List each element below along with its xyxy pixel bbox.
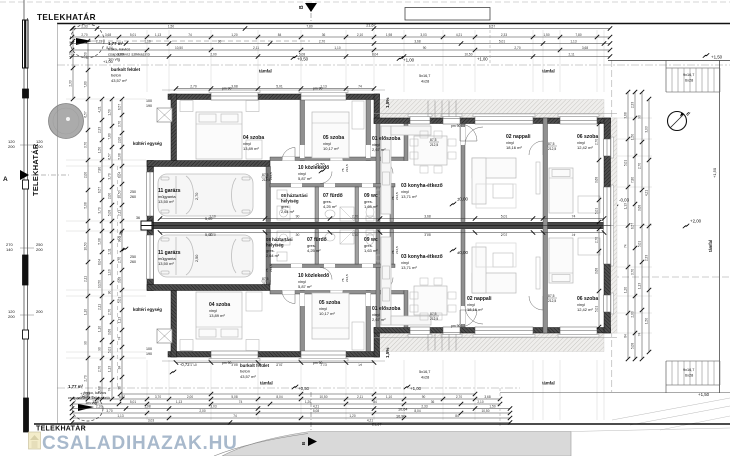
svg-text:2,00: 2,00 bbox=[187, 395, 193, 399]
svg-text:4x28: 4x28 bbox=[421, 80, 429, 84]
dimension chain bottom 6 bbox=[70, 418, 512, 424]
svg-text:2,33: 2,33 bbox=[631, 102, 635, 108]
svg-text:1,13: 1,13 bbox=[108, 366, 112, 372]
svg-text:5,08: 5,08 bbox=[631, 343, 635, 349]
svg-text:-0,03: -0,03 bbox=[619, 198, 630, 203]
window sills right wall bbox=[611, 137, 614, 158]
svg-text:3,68: 3,68 bbox=[231, 84, 238, 88]
interior wall bedrooms corridor bbox=[270, 157, 404, 161]
svg-text:84: 84 bbox=[624, 334, 628, 338]
svg-text:43,57 m²: 43,57 m² bbox=[111, 78, 127, 83]
svg-text:1,10: 1,10 bbox=[386, 395, 392, 399]
interior wall kitchen left bbox=[376, 124, 380, 222]
stairs bottom right bbox=[666, 361, 720, 393]
svg-text:7,80: 7,80 bbox=[84, 81, 88, 87]
left vertical chain 1 bbox=[69, 26, 76, 101]
svg-text:250: 250 bbox=[130, 190, 136, 194]
svg-text:1,50: 1,50 bbox=[84, 52, 88, 58]
svg-text:2,00: 2,00 bbox=[84, 172, 88, 178]
svg-text:6,57: 6,57 bbox=[108, 153, 112, 159]
level marker bbox=[703, 53, 709, 57]
svg-text:200: 200 bbox=[36, 309, 43, 314]
svg-text:3,70: 3,70 bbox=[108, 173, 112, 179]
svg-text:90: 90 bbox=[218, 39, 222, 43]
svg-text:6x28: 6x28 bbox=[685, 374, 693, 378]
svg-text:87,5: 87,5 bbox=[262, 173, 269, 177]
svg-text:87,5: 87,5 bbox=[548, 294, 555, 298]
svg-text:5,01: 5,01 bbox=[595, 208, 599, 214]
wardrobe 06 bbox=[578, 196, 600, 213]
dimension chain bottom 0 bbox=[118, 392, 477, 396]
svg-text:74: 74 bbox=[239, 400, 243, 404]
svg-text:1,13: 1,13 bbox=[570, 39, 576, 43]
svg-text:1,50: 1,50 bbox=[98, 147, 102, 153]
car top garage bbox=[158, 174, 253, 216]
retaining wall line top right bbox=[608, 60, 730, 62]
svg-text:250: 250 bbox=[130, 255, 136, 259]
left vertical chain 2 bbox=[84, 39, 91, 401]
dash-dot level line top bbox=[57, 64, 730, 66]
svg-text:2,33: 2,33 bbox=[69, 80, 73, 86]
kitchen stove bbox=[383, 172, 390, 185]
window 06 szoba top bbox=[560, 117, 597, 125]
svg-text:3,70: 3,70 bbox=[117, 52, 123, 56]
door gap 04|05 wall bbox=[300, 145, 305, 158]
exterior wall top right wing bbox=[374, 118, 611, 124]
svg-text:84: 84 bbox=[118, 366, 122, 370]
svg-text:1,20: 1,20 bbox=[231, 33, 237, 37]
svg-text:2,70: 2,70 bbox=[190, 84, 197, 88]
svg-text:190: 190 bbox=[146, 104, 152, 108]
svg-text:3,68: 3,68 bbox=[638, 205, 642, 211]
svg-text:10,64: 10,64 bbox=[398, 408, 408, 412]
section marker B top triangle bbox=[305, 3, 317, 12]
svg-text:3,70: 3,70 bbox=[84, 142, 88, 148]
svg-text:5,01: 5,01 bbox=[501, 214, 508, 218]
svg-text:212,5: 212,5 bbox=[548, 147, 556, 151]
svg-text:1,5%: 1,5% bbox=[385, 98, 390, 108]
level marker bbox=[397, 56, 403, 60]
level marker bbox=[404, 385, 410, 389]
sink 08 bbox=[277, 190, 287, 199]
svg-text:2,64 m²: 2,64 m² bbox=[281, 209, 295, 214]
svg-text:+1,50: +1,50 bbox=[712, 167, 717, 178]
svg-text:3,68: 3,68 bbox=[624, 112, 628, 118]
svg-text:3,68: 3,68 bbox=[118, 277, 122, 283]
dimension chain bottom 1 bbox=[70, 395, 502, 401]
level marker bbox=[683, 224, 689, 228]
svg-text:3,68: 3,68 bbox=[595, 268, 599, 274]
svg-text:4,25 m²: 4,25 m² bbox=[307, 248, 321, 253]
window 05 szoba top bbox=[301, 92, 346, 100]
svg-text:87,5: 87,5 bbox=[262, 277, 269, 281]
svg-text:2,67 m²: 2,67 m² bbox=[372, 147, 386, 152]
svg-text:10,50: 10,50 bbox=[98, 280, 102, 288]
svg-text:74: 74 bbox=[572, 214, 576, 218]
svg-text:+1,00: +1,00 bbox=[410, 386, 422, 391]
svg-text:13,50 m²: 13,50 m² bbox=[158, 199, 174, 204]
svg-text:4,25 m²: 4,25 m² bbox=[323, 204, 337, 209]
bed 04 szoba bbox=[196, 112, 242, 159]
svg-text:5,87 m²: 5,87 m² bbox=[298, 284, 312, 289]
svg-text:2,11: 2,11 bbox=[569, 52, 575, 56]
svg-text:4,21: 4,21 bbox=[456, 33, 462, 37]
svg-text:90: 90 bbox=[638, 115, 642, 119]
entrance door top bbox=[443, 117, 460, 125]
svg-text:12,42 m²: 12,42 m² bbox=[577, 307, 593, 312]
window 04 szoba top bbox=[211, 92, 258, 100]
svg-text:1,50: 1,50 bbox=[108, 109, 112, 115]
svg-text:2,10: 2,10 bbox=[96, 404, 102, 408]
svg-text:1,13: 1,13 bbox=[155, 33, 161, 37]
svg-text:2,70: 2,70 bbox=[108, 309, 112, 315]
building unit geometry mirrored bottom bbox=[141, 226, 617, 367]
site boundary dashed line top edge bbox=[0, 1, 730, 3]
right vertical chain 4 bbox=[645, 97, 652, 354]
svg-text:260: 260 bbox=[130, 260, 136, 264]
svg-text:6x28: 6x28 bbox=[685, 79, 693, 83]
door gap corridor 04 bbox=[282, 157, 295, 161]
svg-text:212,5: 212,5 bbox=[548, 299, 556, 303]
kulteri egyseg box bbox=[157, 108, 172, 122]
kitchen counter bbox=[381, 126, 391, 214]
svg-text:5,01: 5,01 bbox=[118, 297, 122, 303]
svg-text:2,33: 2,33 bbox=[501, 33, 507, 37]
interior wall bath block top bbox=[270, 184, 395, 188]
svg-text:1,63 m²: 1,63 m² bbox=[364, 248, 378, 253]
chain terminator dashes bbox=[489, 25, 491, 64]
svg-text:burkolt felület: burkolt felület bbox=[240, 363, 270, 368]
svg-text:pm 90: pm 90 bbox=[451, 324, 461, 328]
svg-text:TELEKHATÁR: TELEKHATÁR bbox=[31, 143, 40, 196]
svg-text:+0,50: +0,50 bbox=[297, 57, 309, 62]
svg-text:43,57 m²: 43,57 m² bbox=[240, 374, 256, 379]
svg-text:100: 100 bbox=[146, 347, 152, 351]
svg-text:74: 74 bbox=[358, 84, 362, 88]
svg-text:200: 200 bbox=[36, 247, 43, 252]
svg-text:5,01: 5,01 bbox=[638, 241, 642, 247]
svg-text:13,89 m²: 13,89 m² bbox=[209, 313, 225, 318]
svg-text:9x16,7: 9x16,7 bbox=[683, 73, 694, 77]
svg-text:pm 90: pm 90 bbox=[451, 124, 461, 128]
svg-text:támfal: támfal bbox=[542, 69, 555, 74]
svg-text:3,68: 3,68 bbox=[424, 214, 431, 218]
svg-text:1,20: 1,20 bbox=[624, 287, 628, 293]
boundary post bottom bar bbox=[24, 398, 29, 432]
svg-text:10,50: 10,50 bbox=[118, 190, 122, 198]
svg-text:74: 74 bbox=[118, 337, 122, 341]
svg-text:CSALADIHAZAK.HU: CSALADIHAZAK.HU bbox=[42, 433, 238, 454]
washing machine 08 bbox=[277, 206, 290, 220]
svg-text:1,50: 1,50 bbox=[645, 318, 649, 324]
interior wall 05|01 bbox=[366, 100, 371, 161]
dining table bbox=[414, 136, 447, 165]
svg-text:1,20: 1,20 bbox=[305, 400, 311, 404]
interior wall kitchen|nappali bbox=[461, 124, 465, 222]
dimension chain top 4 bbox=[70, 46, 612, 52]
svg-text:kültéri egység: kültéri egység bbox=[133, 141, 162, 146]
road curve line bbox=[214, 434, 308, 456]
svg-text:3,68: 3,68 bbox=[108, 329, 112, 335]
svg-text:212,5: 212,5 bbox=[395, 192, 399, 200]
svg-text:212,5: 212,5 bbox=[345, 164, 349, 172]
svg-text:36: 36 bbox=[118, 386, 122, 390]
shower 07 bbox=[340, 207, 354, 221]
road gray band bottom right bbox=[222, 432, 571, 456]
svg-text:21,67: 21,67 bbox=[366, 24, 376, 28]
svg-text:5,01: 5,01 bbox=[499, 39, 505, 43]
level marker bbox=[122, 247, 128, 251]
svg-text:A: A bbox=[3, 176, 8, 183]
svg-text:pm 90: pm 90 bbox=[313, 87, 323, 91]
svg-text:helyiség: helyiség bbox=[281, 199, 299, 204]
svg-text:3,03: 3,03 bbox=[420, 33, 426, 37]
party wall pillar left bbox=[141, 221, 152, 226]
svg-text:3,70: 3,70 bbox=[631, 269, 635, 275]
svg-text:+0,50: +0,50 bbox=[298, 386, 310, 391]
washbasin 07 bbox=[325, 210, 335, 218]
svg-text:burkolt felület: burkolt felület bbox=[111, 67, 141, 72]
svg-text:2,50: 2,50 bbox=[195, 255, 199, 262]
svg-text:2,11: 2,11 bbox=[98, 304, 102, 310]
toilet 09 bbox=[366, 207, 374, 218]
svg-text:5,08: 5,08 bbox=[84, 202, 88, 208]
svg-text:12,42 m²: 12,42 m² bbox=[577, 145, 593, 150]
svg-text:5,08: 5,08 bbox=[118, 153, 122, 159]
svg-text:+1,00: +1,00 bbox=[80, 391, 91, 396]
svg-text:212,5: 212,5 bbox=[430, 143, 438, 147]
svg-text:10,50: 10,50 bbox=[175, 46, 183, 50]
svg-text:2,10: 2,10 bbox=[477, 400, 483, 404]
svg-text:2,67 m²: 2,67 m² bbox=[372, 317, 386, 322]
svg-text:1,10: 1,10 bbox=[84, 309, 88, 315]
svg-text:4,21: 4,21 bbox=[313, 404, 319, 408]
svg-text:212,5: 212,5 bbox=[269, 264, 273, 272]
svg-text:3,68: 3,68 bbox=[595, 177, 599, 183]
section line B bottom segment bbox=[310, 392, 312, 436]
legend box top bbox=[405, 8, 490, 21]
svg-text:3,68: 3,68 bbox=[98, 386, 102, 392]
dimension chain top 5 bbox=[70, 52, 612, 58]
dash-dot level line bottom bbox=[57, 387, 520, 389]
svg-text:1,98: 1,98 bbox=[386, 33, 392, 37]
svg-text:támfal: támfal bbox=[259, 69, 272, 74]
svg-text:+1,00: +1,00 bbox=[477, 57, 488, 62]
exterior wall top-left wing bbox=[168, 94, 380, 100]
svg-text:5,01: 5,01 bbox=[130, 400, 136, 404]
svg-text:1,98: 1,98 bbox=[144, 404, 150, 408]
coffee table nappali bbox=[493, 184, 513, 198]
section line B top segment bbox=[310, 13, 312, 23]
boundary post square 2 bbox=[23, 180, 29, 189]
interior wall 09|kitchen bbox=[390, 187, 394, 222]
svg-text:10,17 m²: 10,17 m² bbox=[323, 146, 339, 151]
wall garage top / bedroom separator bbox=[147, 161, 270, 167]
svg-text:7,80: 7,80 bbox=[575, 33, 581, 37]
svg-text:2,70: 2,70 bbox=[638, 163, 642, 169]
svg-text:8,04: 8,04 bbox=[372, 52, 378, 56]
level marker bbox=[450, 248, 456, 252]
stairs top right bbox=[666, 61, 720, 93]
soakaway dashed circle top with arrow bbox=[70, 24, 104, 58]
window sills right wing bbox=[408, 114, 432, 117]
svg-text:1,13: 1,13 bbox=[176, 400, 182, 404]
dashed vertical line x57 bbox=[57, 24, 59, 425]
level marker bbox=[292, 385, 298, 389]
dashed vertical right of building bbox=[611, 60, 613, 392]
svg-text:támfal: támfal bbox=[542, 381, 555, 386]
door arc 04 szoba bbox=[282, 148, 295, 161]
door gap bath 08 bbox=[291, 184, 302, 188]
svg-text:2,33: 2,33 bbox=[645, 255, 649, 261]
svg-text:2,33: 2,33 bbox=[421, 404, 427, 408]
svg-text:90: 90 bbox=[98, 347, 102, 351]
right boundary vertical line bbox=[719, 61, 721, 394]
svg-text:helyiség: helyiség bbox=[266, 243, 284, 248]
svg-text:13,89 m²: 13,89 m² bbox=[243, 146, 259, 151]
svg-text:200: 200 bbox=[8, 314, 15, 319]
svg-text:5,01: 5,01 bbox=[130, 33, 136, 37]
level marker bbox=[612, 205, 618, 209]
svg-text:támfal: támfal bbox=[260, 381, 273, 386]
svg-text:8,04: 8,04 bbox=[276, 395, 282, 399]
svg-text:212,5: 212,5 bbox=[430, 317, 438, 321]
kitchen sink bbox=[383, 150, 390, 163]
svg-text:5x16,7: 5x16,7 bbox=[419, 370, 430, 374]
svg-text:5,08: 5,08 bbox=[108, 210, 112, 216]
svg-text:5x16,7: 5x16,7 bbox=[419, 74, 430, 78]
dimension chain top 3 bbox=[70, 39, 612, 45]
north compass bbox=[668, 112, 687, 131]
svg-text:4,21: 4,21 bbox=[645, 190, 649, 196]
svg-text:90: 90 bbox=[423, 46, 427, 50]
svg-text:7,80: 7,80 bbox=[98, 167, 102, 173]
svg-text:2,70: 2,70 bbox=[595, 237, 599, 243]
svg-text:212,5: 212,5 bbox=[395, 246, 399, 254]
svg-text:1,10: 1,10 bbox=[108, 269, 112, 275]
svg-text:8,04: 8,04 bbox=[414, 409, 420, 413]
level marker bbox=[319, 169, 325, 173]
svg-text:3,68: 3,68 bbox=[484, 395, 490, 399]
svg-text:pm 90: pm 90 bbox=[313, 361, 323, 365]
svg-text:±0,00: ±0,00 bbox=[457, 197, 469, 202]
svg-text:6,57: 6,57 bbox=[84, 111, 88, 117]
washbasin 09 bbox=[376, 190, 384, 196]
svg-text:87,5: 87,5 bbox=[430, 312, 437, 316]
svg-text:3,70: 3,70 bbox=[106, 409, 112, 413]
dimension chain top 1 bbox=[70, 24, 612, 30]
svg-text:2,70: 2,70 bbox=[514, 46, 520, 50]
svg-text:90: 90 bbox=[422, 395, 426, 399]
boundary post rectangle top bbox=[23, 20, 29, 68]
svg-text:3,68: 3,68 bbox=[414, 39, 420, 43]
svg-text:1,65 m²: 1,65 m² bbox=[364, 204, 378, 209]
right vertical chain 1 bbox=[624, 90, 631, 361]
svg-text:36: 36 bbox=[136, 216, 140, 220]
svg-text:8,04: 8,04 bbox=[98, 259, 102, 265]
boundary post square 1 bbox=[23, 89, 29, 98]
svg-text:1,50: 1,50 bbox=[631, 134, 635, 140]
right vertical chain 2 bbox=[631, 90, 638, 361]
svg-text:1,20: 1,20 bbox=[349, 414, 355, 418]
svg-text:13,71 m²: 13,71 m² bbox=[401, 194, 417, 199]
entrance steps top bbox=[428, 101, 456, 118]
svg-text:3,03: 3,03 bbox=[645, 126, 649, 132]
dimension chain bottom 2 bbox=[70, 400, 502, 406]
svg-text:pm 90: pm 90 bbox=[222, 87, 232, 91]
svg-text:2,70: 2,70 bbox=[98, 366, 102, 372]
svg-text:3,68: 3,68 bbox=[92, 400, 98, 404]
left property boundary double line bbox=[23, 0, 25, 420]
svg-text:B: B bbox=[299, 5, 305, 9]
svg-text:6,57: 6,57 bbox=[631, 223, 635, 229]
boundary post square 3 bbox=[23, 330, 29, 339]
wardrobe 04 right bbox=[246, 140, 262, 159]
svg-text:2,70: 2,70 bbox=[352, 214, 359, 218]
interior wall 04|05 bbox=[300, 100, 305, 161]
level marker bbox=[291, 55, 297, 59]
svg-text:2,70: 2,70 bbox=[195, 193, 199, 200]
eaves line top-left bbox=[162, 89, 385, 91]
left vertical chain 3 bbox=[98, 97, 105, 401]
svg-text:pm 90: pm 90 bbox=[222, 361, 232, 365]
dimension chain bottom 4 bbox=[70, 409, 512, 415]
svg-text:2,00: 2,00 bbox=[108, 193, 112, 199]
svg-text:100: 100 bbox=[146, 99, 152, 103]
svg-text:10,50: 10,50 bbox=[465, 52, 473, 56]
svg-text:+1,00: +1,00 bbox=[103, 59, 114, 64]
svg-text:08 háztartási: 08 háztartási bbox=[266, 237, 293, 242]
interior wall 08|07 bbox=[315, 187, 319, 222]
interior dim chain bedrooms top bbox=[174, 84, 376, 90]
left vertical chain 5 bbox=[118, 97, 125, 401]
svg-text:2,11: 2,11 bbox=[96, 39, 102, 43]
extension hairlines vertical top bbox=[146, 30, 148, 92]
bed 05 szoba bbox=[312, 112, 349, 158]
svg-text:beton: beton bbox=[111, 73, 121, 78]
svg-text:2,70: 2,70 bbox=[81, 33, 87, 37]
svg-text:5,08: 5,08 bbox=[313, 409, 319, 413]
svg-text:212,5: 212,5 bbox=[345, 274, 349, 282]
svg-text:2,00: 2,00 bbox=[631, 311, 635, 317]
party wall half bbox=[154, 222, 611, 225]
svg-text:18,16 m²: 18,16 m² bbox=[506, 145, 522, 150]
svg-text:2,11: 2,11 bbox=[108, 248, 112, 254]
level marker bbox=[450, 202, 456, 206]
svg-text:87,5: 87,5 bbox=[430, 138, 437, 142]
svg-text:212,5: 212,5 bbox=[262, 282, 270, 286]
svg-text:90: 90 bbox=[296, 214, 300, 218]
svg-text:1,13: 1,13 bbox=[118, 317, 122, 323]
door arc corridor bbox=[320, 172, 332, 184]
retaining wall line bottom right bbox=[500, 392, 730, 394]
svg-text:+1,00: +1,00 bbox=[403, 58, 415, 63]
svg-text:5,00: 5,00 bbox=[205, 233, 212, 237]
svg-text:TELEKHATÁR: TELEKHATÁR bbox=[36, 424, 86, 433]
svg-text:190: 190 bbox=[146, 352, 152, 356]
dimension chain top 2 bbox=[70, 33, 612, 39]
svg-text:2,11: 2,11 bbox=[84, 276, 88, 282]
building unit geometry top (walls, windows, furniture) bbox=[141, 84, 617, 225]
svg-text:7,80: 7,80 bbox=[108, 133, 112, 139]
svg-text:±0,00: ±0,00 bbox=[457, 250, 469, 255]
property boundary thick line bottom bbox=[34, 423, 730, 425]
svg-text:212,5: 212,5 bbox=[269, 172, 273, 180]
svg-text:4,21: 4,21 bbox=[69, 51, 73, 57]
svg-text:-0,72: -0,72 bbox=[180, 362, 190, 367]
wardrobe 05 bbox=[352, 101, 364, 129]
svg-text:4x28: 4x28 bbox=[421, 376, 429, 380]
